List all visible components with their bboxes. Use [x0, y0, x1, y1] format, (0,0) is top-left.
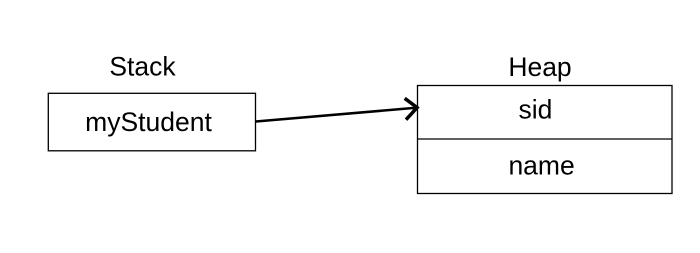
box myStudent — [48, 93, 255, 151]
label Stack — [109, 52, 176, 82]
wire arrow myStudent to Heap — [256, 98, 417, 121]
label name — [508, 150, 574, 180]
label Heap — [508, 52, 571, 82]
label sid — [519, 95, 553, 125]
svg-text:Stack: Stack — [109, 52, 176, 82]
box Heap — [418, 86, 673, 194]
svg-text:name: name — [508, 150, 574, 180]
svg-text:Heap: Heap — [508, 52, 571, 82]
svg-text:myStudent: myStudent — [85, 107, 212, 137]
svg-text:sid: sid — [519, 95, 553, 125]
divider sid/name — [418, 138, 673, 140]
